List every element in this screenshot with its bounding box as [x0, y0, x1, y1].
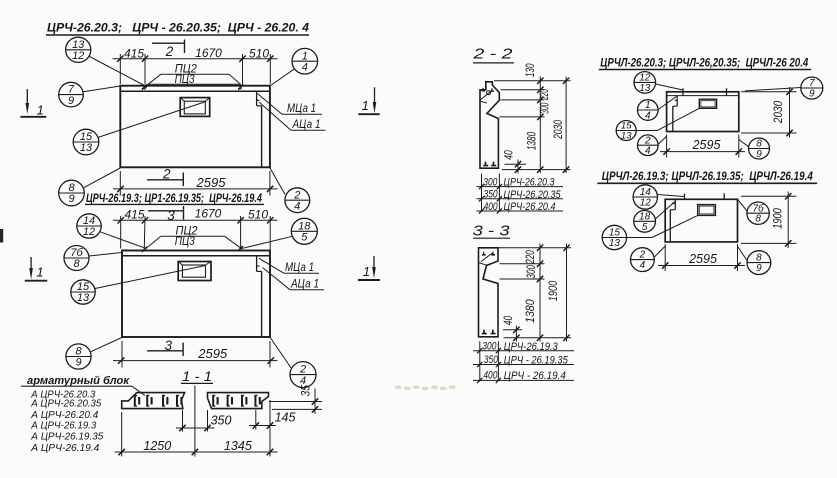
dimension line 415|1670|510 (B)	[113, 207, 278, 250]
svg-text:3: 3	[165, 338, 173, 353]
section mark 3 (top of B)	[148, 206, 184, 223]
svg-text:ЦРЧ-26.20.35: ЦРЧ-26.20.35	[504, 189, 562, 201]
section 3-3 extension lines	[499, 248, 572, 338]
circle 8/9 (F)	[747, 251, 771, 275]
circle 7/9 (A)	[59, 82, 84, 107]
circle 13/12 (A)	[66, 37, 91, 62]
svg-text:13: 13	[621, 131, 632, 142]
svg-text:А ЦРЧ-26.20.35: А ЦРЧ-26.20.35	[30, 398, 101, 410]
drawing F title ЦРЧЛ-26.19	[597, 169, 817, 183]
svg-text:2: 2	[165, 44, 174, 59]
svg-text:350: 350	[484, 354, 499, 366]
dimensions 1250 / 1345 (1-1)	[115, 400, 278, 457]
label МЦа 1 (B)	[259, 258, 319, 274]
svg-text:35: 35	[299, 385, 313, 397]
list of blocks А ЦРЧ	[30, 388, 103, 454]
panel E lifting loop ticks	[683, 88, 727, 95]
svg-text:4: 4	[294, 200, 300, 212]
leader 7/9 to corner (E)	[745, 88, 801, 91]
svg-text:ЦРЧ-26.20.3: ЦРЧ-26.20.3	[504, 177, 556, 189]
circle 14/12 (B)	[77, 214, 101, 238]
circle 2/4 (F)	[631, 248, 655, 272]
svg-text:4: 4	[645, 111, 651, 122]
faint erased pencil smudge	[395, 386, 456, 391]
panel A outline	[120, 86, 270, 168]
svg-text:2: 2	[644, 135, 651, 146]
circle 1/4 (E)	[638, 100, 659, 122]
window opening (E)	[699, 99, 716, 108]
svg-text:415: 415	[124, 47, 144, 61]
panel B top flange line	[122, 255, 270, 257]
section title 1 - 1	[181, 368, 213, 384]
panel A right edge rebate notch	[257, 91, 262, 167]
section mark 3 (bottom of B)	[147, 338, 183, 356]
svg-text:1380: 1380	[523, 299, 537, 323]
label МЦа 1 (A)	[258, 94, 322, 115]
section mark 2 (top of A)	[152, 40, 185, 60]
svg-text:4: 4	[645, 146, 651, 157]
svg-text:А ЦРЧ-26.19.35: А ЦРЧ-26.19.35	[30, 431, 103, 443]
leader 1/4 to panel corner	[270, 69, 294, 86]
svg-text:12: 12	[72, 50, 84, 62]
panel E outline	[667, 92, 739, 132]
panel B right edge rebate notch	[257, 256, 262, 337]
svg-text:2595: 2595	[196, 175, 227, 190]
svg-text:1345: 1345	[224, 439, 252, 453]
svg-text:7: 7	[809, 78, 815, 89]
svg-text:510: 510	[249, 47, 269, 61]
svg-text:13: 13	[80, 142, 93, 154]
circle 14/12 (F)	[633, 185, 657, 209]
section mark 2 (bottom of A)	[147, 167, 183, 187]
svg-text:2: 2	[162, 167, 171, 182]
svg-text:А ЦРЧ-26.19.3: А ЦРЧ-26.19.3	[30, 419, 96, 431]
dimension 40 (3-3)	[501, 316, 522, 342]
svg-text:1250: 1250	[143, 439, 171, 453]
svg-text:1900: 1900	[771, 208, 785, 229]
circle 15/13 (F)	[602, 225, 626, 249]
svg-text:350: 350	[211, 414, 232, 428]
window opening (F)	[698, 205, 716, 216]
svg-text:А ЦРЧ-26.19.4: А ЦРЧ-26.19.4	[30, 442, 99, 454]
section 2-2 inner dim line (130/220/300/1380)	[523, 63, 552, 173]
svg-text:13: 13	[639, 83, 651, 94]
svg-text:14: 14	[640, 187, 652, 198]
leader 15/13 to window (B)	[95, 266, 205, 289]
section cut mark 1 (right of B)	[358, 256, 380, 280]
leader 2/4 to corner (F)	[654, 246, 665, 257]
circle 15/13 (E)	[616, 121, 636, 142]
section title 2 - 2	[472, 47, 514, 63]
svg-text:510: 510	[248, 207, 268, 221]
svg-text:2030: 2030	[771, 101, 785, 124]
svg-text:1: 1	[363, 264, 370, 279]
svg-text:9: 9	[68, 193, 74, 205]
leader 12/13 to loop tick	[656, 84, 684, 90]
svg-text:8: 8	[756, 139, 762, 150]
section cut mark 1 (right of A)	[358, 87, 379, 114]
circle 1/4 (A)	[292, 48, 318, 74]
section 3-3 top rebar marks	[482, 252, 495, 256]
svg-text:1 - 1: 1 - 1	[182, 368, 212, 384]
circle 18/5 (B)	[291, 218, 317, 244]
panel A top flange line	[120, 90, 270, 92]
circle 7б/8 (F)	[747, 202, 769, 225]
circle 8/9 (A)	[59, 180, 85, 206]
circle 8/9 (B)	[66, 344, 91, 369]
svg-text:9: 9	[75, 357, 81, 369]
svg-text:12: 12	[83, 226, 95, 238]
svg-text:1670: 1670	[195, 207, 222, 221]
svg-text:1: 1	[645, 100, 651, 111]
dimension 40 (2-2)	[502, 150, 527, 173]
label ПЦ2 (A) with leader trapezoid	[145, 64, 242, 90]
section 1-1 left bar	[122, 393, 185, 409]
svg-text:15: 15	[609, 228, 621, 239]
rebar marks right bar	[213, 395, 261, 407]
panel B flange joint ticks	[142, 246, 243, 252]
panel F outline	[665, 199, 737, 242]
circle 15/13 (A)	[73, 129, 99, 155]
svg-text:ПЦ3: ПЦ3	[175, 236, 196, 248]
leader 2/4 to corner (E)	[658, 137, 666, 145]
svg-text:9: 9	[68, 95, 74, 107]
svg-text:300: 300	[483, 176, 498, 188]
svg-text:145: 145	[275, 411, 296, 425]
svg-text:7б: 7б	[753, 202, 765, 214]
section title 3 - 3	[473, 224, 511, 240]
svg-text:4: 4	[302, 61, 308, 73]
svg-text:4: 4	[640, 260, 646, 271]
label АЦа 1 (B)	[263, 268, 325, 291]
circle 2/4 (B)	[290, 362, 316, 388]
panel E left edge rebate notch	[673, 96, 677, 132]
section 2-2 top rebar marks	[482, 88, 494, 92]
svg-text:ЦРЧ-26.20.4: ЦРЧ-26.20.4	[504, 201, 556, 213]
leader 7/9 to panel corner	[83, 86, 120, 92]
svg-text:220: 220	[537, 89, 551, 101]
section cut mark 1 (left of A)	[20, 89, 46, 118]
svg-text:40: 40	[502, 150, 516, 160]
svg-text:МЦа 1: МЦа 1	[285, 260, 314, 274]
circle 8/9 (E)	[749, 138, 770, 160]
leader 14/12 to loop tick (F)	[657, 195, 684, 197]
leader 8/9 to corner (F)	[738, 247, 748, 261]
svg-text:350: 350	[484, 189, 499, 201]
svg-text:400: 400	[483, 369, 498, 381]
svg-text:2 - 2: 2 - 2	[472, 47, 512, 63]
panel F lifting loop ticks	[685, 193, 725, 199]
svg-text:1: 1	[37, 103, 44, 118]
label ПЦ2 (B) with leader trapezoid	[146, 226, 241, 249]
svg-text:ЦРЧ - 26.19.4: ЦРЧ - 26.19.4	[504, 370, 566, 382]
svg-text:ЦРЧ-26.19.3: ЦРЧ-26.19.3	[504, 341, 559, 353]
section 1-1 right bar	[208, 393, 269, 409]
section 2-2 profile outline	[480, 82, 499, 168]
section 3-3 flange underside line	[479, 263, 487, 266]
svg-text:3 - 3: 3 - 3	[473, 224, 510, 240]
svg-text:1: 1	[36, 265, 43, 280]
leader 2/4 to panel corner	[270, 168, 285, 194]
window opening (A)	[180, 98, 210, 117]
leader 7б/8 to panel edge	[89, 253, 122, 257]
svg-text:ЦРЧ - 26.19.35: ЦРЧ - 26.19.35	[504, 355, 569, 367]
svg-text:300: 300	[482, 340, 497, 352]
dimension 2595 (F)	[658, 244, 745, 271]
svg-text:5: 5	[301, 232, 308, 244]
panel B outline	[122, 251, 270, 338]
section 2-2 extension lines	[494, 81, 571, 170]
section cut mark 1 (left of B)	[25, 257, 47, 281]
section 3-3 loop diagonal	[481, 253, 493, 262]
leader 8/9 to panel corner	[84, 168, 120, 188]
svg-text:ЦРЧ-26.19.3; ЦР1-26.19.35; ЦР: ЦРЧ-26.19.3; ЦР1-26.19.35; ЦРЧ-26.19.4	[86, 193, 262, 205]
dimension 2030 (E)	[741, 87, 797, 138]
circle 7/9 (E)	[801, 77, 823, 100]
svg-text:4: 4	[300, 375, 306, 387]
circle 12/13 (E)	[634, 72, 656, 94]
svg-text:ЦРЧЛ-26.19.3; ЦРЧЛ-26.19.35;: ЦРЧЛ-26.19.3; ЦРЧЛ-26.19.35; ЦРЧЛ-26.19.…	[602, 169, 813, 183]
svg-text:8: 8	[756, 253, 762, 264]
panel A flange joint ticks	[142, 84, 244, 89]
svg-text:1380: 1380	[524, 132, 538, 150]
label арматурный блок	[21, 375, 145, 396]
section 2-2 flange underside line	[480, 101, 487, 103]
leader 8/9 to corner (E)	[739, 140, 749, 147]
svg-text:2595: 2595	[688, 252, 717, 266]
leader 14/12 to flange joint	[100, 232, 144, 248]
dimension 2595 (B)	[113, 341, 278, 368]
drawing A title ЦРЧ-26.20	[46, 21, 309, 35]
leader 1/4 to notch (E)	[658, 96, 676, 109]
svg-text:2595: 2595	[197, 346, 228, 361]
svg-text:9: 9	[756, 149, 762, 160]
section 2-2 bottom rebar marks	[483, 162, 496, 167]
circle 2/4 (E)	[638, 135, 659, 157]
table under 2-2	[477, 174, 564, 214]
svg-text:ЦРЧЛ-26.20.3; ЦРЧЛ-26,20.35;: ЦРЧЛ-26.20.3; ЦРЧЛ-26,20.35; ЦРЧЛ-26 20.…	[600, 55, 808, 69]
dimension 2595 (A)	[113, 171, 278, 196]
panel F left edge rebate notch	[670, 199, 675, 242]
circle 2/4 (A)	[285, 188, 310, 213]
dimension 1900 (F)	[741, 192, 797, 249]
centre line of section 1-1	[194, 386, 196, 457]
section 3-3 outer dim line 1900	[546, 244, 570, 342]
svg-text:300: 300	[537, 103, 551, 114]
svg-text:18: 18	[639, 211, 651, 222]
section 3-3 bottom rebar marks	[482, 330, 496, 335]
svg-text:2030: 2030	[551, 120, 565, 140]
svg-text:арматурный блок: арматурный блок	[27, 375, 130, 387]
scan artifact left edge	[0, 229, 3, 243]
leader 13/12 to flange joint	[90, 57, 145, 86]
svg-text:220: 220	[523, 250, 537, 264]
svg-text:13: 13	[77, 292, 90, 304]
leader 8/9 to panel corner (B)	[91, 338, 122, 352]
svg-text:5: 5	[642, 222, 648, 233]
svg-text:300: 300	[524, 265, 538, 279]
leader 15/13 to window	[98, 102, 205, 137]
svg-text:1670: 1670	[195, 46, 222, 60]
svg-text:9: 9	[809, 89, 815, 100]
svg-text:9: 9	[756, 263, 762, 274]
section 3-3 inner dim line (220/300/1380)	[523, 244, 543, 342]
leader 18/5 to flange joint	[241, 236, 292, 248]
svg-text:АЦа 1: АЦа 1	[290, 277, 319, 291]
svg-text:МЦа 1: МЦа 1	[287, 101, 316, 115]
drawing E title ЦРЧЛ-26.20	[599, 55, 811, 69]
rebar marks left bar	[134, 395, 182, 407]
svg-text:130: 130	[523, 63, 537, 77]
leader 15/13 to window (E)	[636, 108, 699, 130]
dimension 350 (1-1)	[176, 410, 231, 432]
section 2-2 loop circle	[487, 91, 491, 95]
leader 2/4 to panel corner (B)	[270, 338, 291, 369]
drawing B title ЦРЧ-26.19	[85, 193, 264, 205]
svg-text:1900: 1900	[546, 281, 560, 302]
svg-text:415: 415	[124, 207, 144, 221]
section 2-2 outer dim line 2030	[551, 77, 570, 174]
circle 7б/8 (B)	[64, 246, 89, 271]
section 3-3 profile outline	[479, 248, 499, 337]
section 2-2 loop diagonal	[481, 91, 492, 100]
dimension line 415|1670|510 (A)	[113, 46, 278, 84]
svg-text:8: 8	[73, 258, 80, 270]
svg-text:12: 12	[640, 198, 652, 209]
svg-text:2595: 2595	[692, 138, 721, 152]
leader 7б/8 to corner (F)	[738, 200, 747, 211]
dimension 2595 (E)	[660, 135, 745, 158]
svg-text:40: 40	[501, 316, 515, 326]
circle 18/5 (F)	[634, 210, 656, 232]
svg-text:8: 8	[755, 214, 761, 225]
svg-text:13: 13	[609, 238, 621, 249]
window opening (B)	[178, 262, 211, 281]
svg-text:2: 2	[639, 250, 646, 261]
dimension 35 (1-1 right)	[269, 385, 322, 414]
circle 15/13 (B)	[71, 280, 95, 304]
dimension 145 (1-1)	[249, 410, 295, 430]
svg-text:400: 400	[484, 201, 499, 213]
panel E top flange line	[667, 95, 739, 97]
label АЦа 1 (A)	[259, 102, 325, 131]
svg-text:1: 1	[362, 98, 369, 113]
leader 18/5 to notch (F)	[655, 202, 675, 220]
svg-text:12: 12	[639, 73, 651, 84]
table under 3-3	[473, 340, 574, 383]
svg-text:АЦа 1: АЦа 1	[292, 117, 321, 131]
leader 15/13 to window (F)	[627, 215, 698, 237]
svg-text:ЦРЧ-26.20.3; ЦРЧ - 26.20.35;: ЦРЧ-26.20.3; ЦРЧ - 26.20.35; ЦРЧ - 26.20…	[47, 21, 309, 35]
